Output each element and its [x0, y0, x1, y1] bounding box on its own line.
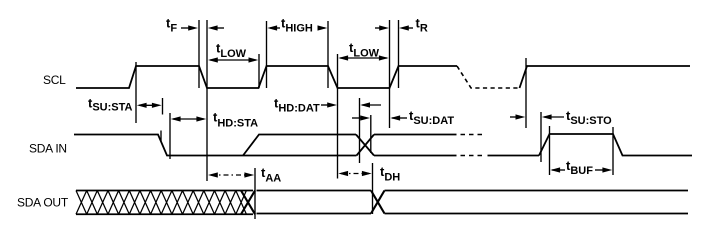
SDA IN data-change crossover X: [356, 135, 374, 156]
SDA OUT valid-data band: [257, 191, 372, 214]
arrow tAA double-headed dash-dot: [211, 174, 251, 176]
arrow tHIGH right head: [319, 27, 325, 29]
arrow tBUF right head, points right into L13: [595, 169, 606, 171]
measurement line tAA right line: [254, 168, 256, 219]
SDA OUT data-change X (at tDH): [371, 191, 385, 214]
arrow tLOW second, double-headed: [340, 57, 387, 59]
measurement line L3 SCL fall1 end (tF/tLOW/tAA boundary): [206, 20, 208, 181]
arrow tR opposing, points left into L9: [403, 27, 413, 29]
measurement line Ta SDA IN X left tick (tHD:DAT right): [359, 98, 361, 163]
measurement line L2 SCL fall1 start (tF left): [198, 20, 200, 88]
arrow tHD:STA double-headed: [173, 118, 204, 120]
arrow tR points right into L8: [375, 27, 384, 29]
SCL final rising edge and high level: [520, 66, 691, 88]
arrow tBUF left head, points left into L12: [552, 169, 565, 171]
SDA OUT data-valid transition X (at tAA): [241, 191, 255, 215]
measurement line L11 SDA STOP rise start (tSU:STO right): [540, 112, 542, 162]
measurement line SDA IN fall-start tick: [160, 131, 162, 142]
arrow tHD:DAT points right into L7: [321, 104, 330, 106]
SDA OUT band to right edge: [385, 191, 689, 214]
SDA OUT cross-hatch lattice: [76, 191, 246, 215]
SDA IN STOP pulse: rise, high, fall, low: [539, 134, 692, 156]
svg-text:SCL: SCL: [43, 73, 66, 87]
measurement line L1 SCL first rise (tSU:STA left): [135, 62, 137, 123]
arrow tSU:STO points right into L10: [510, 116, 519, 118]
SDA OUT hatched (undefined data) band outline: [76, 191, 253, 215]
measurement line L12 SDA STOP rise end (tBUF left): [549, 126, 551, 175]
measurement line tDH right line: [372, 163, 374, 214]
measurement line Tb SDA IN X right tick (tSU:DAT left): [370, 115, 372, 153]
measurement line L6 SCL fall2 start (tHIGH right): [327, 21, 329, 88]
measurement line L7 SCL fall2 end (tLOW2/tHD:DAT/tDH boundary): [337, 54, 339, 179]
arrow tSU:STO opposing, points left into L11: [544, 116, 564, 118]
measurement line L4 SCL rise2 start (tLOW right): [258, 54, 260, 88]
measurement line L9 SCL rise3 end (tR right): [398, 20, 400, 88]
arrow tLOW first, double-headed: [210, 59, 256, 61]
measurement line L13 SDA STOP fall (tBUF right): [612, 127, 614, 175]
SDA IN dashed continuation: [461, 135, 485, 156]
SDA IN band after crossover: [374, 135, 457, 156]
arrow tSU:DAT opposing, points left into L8: [392, 117, 407, 119]
arrow tSU:STA double-headed: [139, 104, 159, 106]
svg-text:SDA IN: SDA IN: [29, 142, 67, 156]
SCL dashed clock-stretch segment: [457, 66, 520, 88]
arrow tSU:DAT points right into Tb: [352, 117, 363, 119]
SDA IN band-top branch rise: [243, 135, 356, 156]
measurement line L5 SCL rise2 end (tHIGH left): [266, 21, 268, 88]
SDA IN low level before STOP rise: [488, 155, 540, 157]
arrow tF points right into L2: [181, 27, 189, 29]
arrow tDH double-headed dash-dot: [341, 173, 369, 175]
SCL waveform solid segments: [76, 66, 457, 88]
measurement line L8 SCL rise3 start (tR/tSU:DAT boundary): [389, 20, 391, 128]
measurement line T1 tSU:STA right tick: [162, 98, 164, 115]
arrow tHIGH left head: [270, 27, 280, 29]
arrow tF opposing, points left into L3: [216, 27, 224, 29]
measurement line tHD:STA left line: [169, 113, 171, 159]
arrow tHD:DAT opposing, points left into Ta: [362, 104, 381, 106]
svg-text:SDA OUT: SDA OUT: [17, 196, 69, 210]
SDA IN waveform: high level, START fall, low/band-bottom line: [74, 135, 357, 156]
measurement line L10 SCL rise4 (tSU:STO left): [525, 58, 527, 128]
